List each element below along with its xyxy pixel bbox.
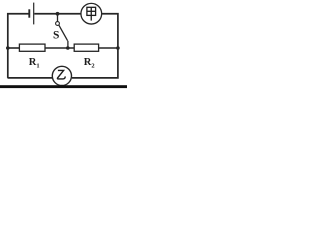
wire: bottom-left from meter 乙 to left wire: [8, 77, 53, 79]
resistor R2: [74, 44, 98, 51]
meter 乙 glyph: [57, 70, 65, 79]
wire: middle row left (junction to R1): [8, 47, 20, 49]
switch S: lower stub to middle wire: [67, 41, 69, 48]
svg-text:R1: R1: [29, 57, 40, 69]
resistor R1: [19, 44, 45, 51]
wire: top from battery to meter: [34, 13, 81, 15]
meter 甲 (U1) circle: [81, 3, 102, 24]
svg-text:S: S: [53, 29, 59, 41]
junction dot on top wire at switch: [56, 12, 60, 16]
bottom rule (scan artifact): [0, 85, 127, 88]
wire: left side of loop (bottom-left corner up to battery): [8, 14, 29, 78]
junction dot left middle: [6, 46, 10, 50]
switch S: pivot circle: [56, 22, 60, 26]
svg-text:R2: R2: [84, 57, 95, 69]
battery: [29, 3, 33, 25]
switch S: stub from top wire: [57, 14, 59, 22]
junction dot switch/middle wire: [66, 46, 70, 50]
meter 乙 circle: [52, 66, 71, 85]
switch S: blade: [59, 25, 68, 41]
wire: middle row right (R2 to right wire): [99, 47, 118, 49]
wire: meter to top-right corner, down right side, along bottom to meter 乙: [72, 14, 118, 78]
wire: middle row between R1 and R2: [45, 47, 74, 49]
meter 甲 glyph: [87, 7, 96, 20]
junction dot right middle: [116, 46, 120, 50]
